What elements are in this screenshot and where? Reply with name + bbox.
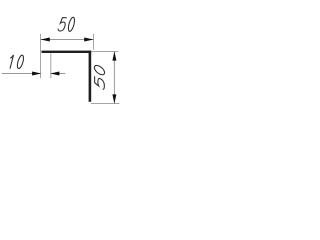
dimension text 10 (left) xyxy=(8,55,25,69)
extension line lip inner (x=51, right side of 10 dim) xyxy=(50,53,52,78)
extension line top-right horizontal (y=51.5) xyxy=(91,51,118,53)
arrowhead right-top (pointing up) xyxy=(112,51,116,60)
extension line left (x=40.7, shared by top 50 dim and 10 dim) xyxy=(40,34,42,78)
dimension line 10 left tail xyxy=(2,73,41,75)
extension line bottom-right horizontal (y=103.4) xyxy=(91,103,120,105)
extension line right of top 50 dim (x=93.3) xyxy=(93,34,95,50)
dimension line 10 right tail xyxy=(51,73,66,75)
dimension line right 50 (vertical) xyxy=(113,52,115,104)
arrowhead right-bottom (pointing down) xyxy=(112,94,116,103)
arrowhead 10 right (pointing left at x=51) xyxy=(50,72,59,76)
arrowhead 10 left (pointing right at x=40.7) xyxy=(32,72,41,76)
arrowhead top-left xyxy=(41,38,50,42)
profile flange (top horizontal leg, 50 wide) xyxy=(42,51,92,53)
dimension line top 50 xyxy=(41,39,94,41)
arrowhead top-right xyxy=(84,38,93,42)
dimension text 50 (top) xyxy=(57,17,75,31)
dimension text 50 (right, rotated) xyxy=(94,64,104,91)
profile right wall (vertical leg, 50 tall) xyxy=(89,51,92,102)
